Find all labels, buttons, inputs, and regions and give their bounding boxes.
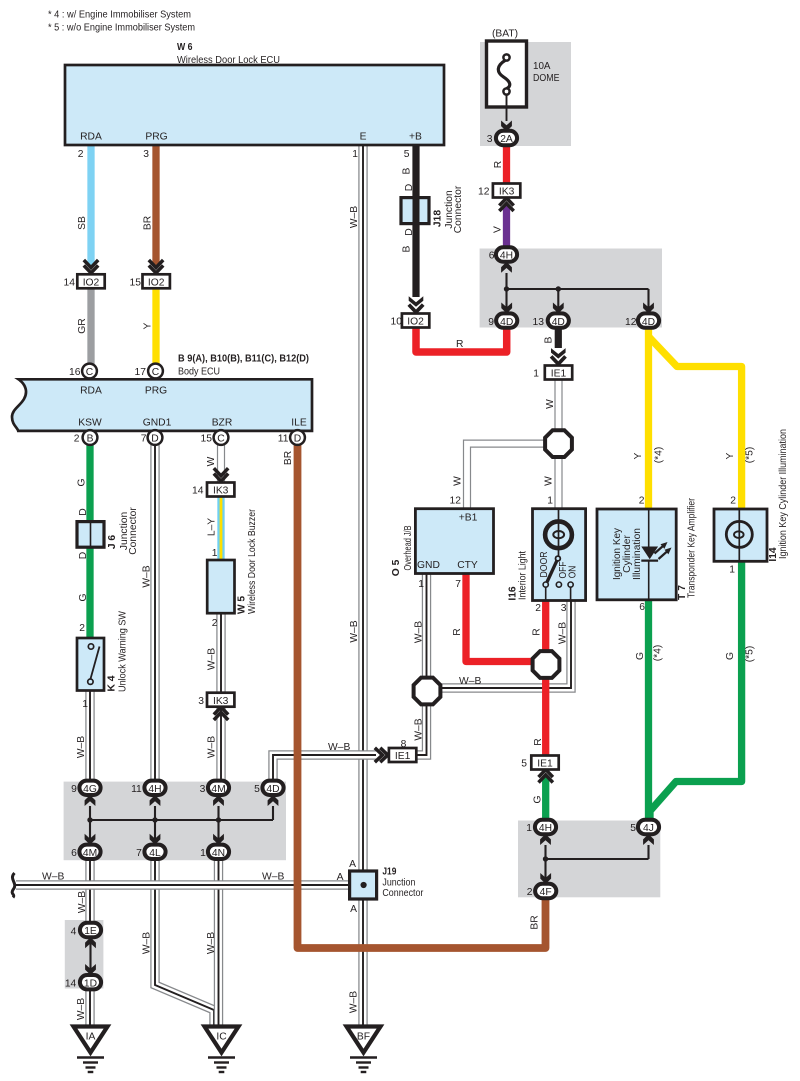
wire W from IE1 pin 1 to splice A xyxy=(554,380,562,430)
Body ECU pin 17 C xyxy=(148,364,163,379)
svg-text:4H: 4H xyxy=(539,823,552,834)
svg-text:W 6: W 6 xyxy=(177,42,193,53)
label W6 xyxy=(177,42,280,66)
shaded relay block 4H/4D xyxy=(480,249,662,328)
svg-text:15: 15 xyxy=(130,278,142,289)
ground BF xyxy=(347,1027,381,1073)
connector 5 4J xyxy=(638,820,659,845)
svg-text:(*5): (*5) xyxy=(745,447,756,464)
svg-text:BF: BF xyxy=(357,1032,370,1043)
svg-text:4M: 4M xyxy=(83,848,97,859)
svg-text:2: 2 xyxy=(78,149,84,160)
svg-text:IE1: IE1 xyxy=(395,751,411,762)
svg-text:W: W xyxy=(544,476,555,486)
wire label W-B 4N xyxy=(206,932,217,954)
wire labels G D J6 K4 xyxy=(77,478,90,601)
svg-text:R: R xyxy=(493,161,504,168)
splice B xyxy=(414,678,441,705)
svg-text:Connector: Connector xyxy=(382,888,423,899)
svg-text:BR: BR xyxy=(530,915,541,929)
wire G from IE1 pin 5 to connector 1 4H xyxy=(542,776,549,821)
wire label W-B 1D xyxy=(76,998,87,1020)
svg-text:C: C xyxy=(217,434,225,445)
label J6 xyxy=(107,507,139,555)
svg-text:W–B: W–B xyxy=(349,991,360,1013)
svg-text:15: 15 xyxy=(201,434,213,445)
wire label W-B K4 xyxy=(76,736,87,758)
pin 1 K4 xyxy=(82,699,88,710)
wire W-B from connector 5 4D to IE1 pin 8 xyxy=(273,755,376,781)
svg-text:2: 2 xyxy=(74,434,80,445)
svg-text:4D: 4D xyxy=(552,317,565,328)
svg-text:10: 10 xyxy=(391,317,403,328)
label W-B splice horizontal xyxy=(459,676,481,687)
pin 5 IE1 xyxy=(521,759,527,770)
svg-text:1: 1 xyxy=(533,369,539,380)
svg-text:IC: IC xyxy=(216,1032,227,1043)
label T7 xyxy=(677,498,698,600)
labels W-B horizontal main xyxy=(42,872,284,883)
svg-text:14: 14 xyxy=(192,486,204,497)
svg-text:5: 5 xyxy=(404,149,410,160)
wire labels W splice A xyxy=(453,476,555,486)
svg-text:1: 1 xyxy=(547,496,553,507)
label (BAT) xyxy=(492,29,518,40)
I16 bottom pin numbers xyxy=(535,603,567,614)
svg-text:Wireless Door Lock Buzzer: Wireless Door Lock Buzzer xyxy=(247,509,258,614)
svg-text:14: 14 xyxy=(64,278,76,289)
wire labels Y *4 xyxy=(633,447,665,464)
svg-text:2: 2 xyxy=(730,496,736,507)
svg-text:W 5: W 5 xyxy=(237,596,248,615)
svg-text:BR: BR xyxy=(283,451,294,465)
wire labels G *4 xyxy=(635,645,664,662)
svg-text:C: C xyxy=(86,367,94,378)
switch K4 Unlock Warning SW xyxy=(77,638,104,691)
connector 14 1D xyxy=(80,964,101,989)
wire W from splice A to O5 +B1 xyxy=(467,444,545,509)
svg-text:B: B xyxy=(87,434,94,445)
svg-text:W–B: W–B xyxy=(262,872,284,883)
svg-text:BZR: BZR xyxy=(212,418,233,429)
svg-text:IK3: IK3 xyxy=(499,187,515,198)
Body ECU pin 16 C xyxy=(82,364,97,379)
svg-text:DOOR: DOOR xyxy=(539,552,550,578)
connector 1 4H xyxy=(535,820,556,845)
svg-text:2: 2 xyxy=(527,887,533,898)
wire SB from W6 RDA xyxy=(87,145,94,266)
svg-text:4M: 4M xyxy=(211,784,225,795)
wire label V xyxy=(493,226,504,233)
svg-text:E: E xyxy=(360,132,367,143)
wire label R I16 pin2 xyxy=(532,628,543,635)
fuse tail arrow xyxy=(501,121,512,132)
svg-text:B 9(A), B10(B), B11(C), B12(D): B 9(A), B10(B), B11(C), B12(D) xyxy=(178,354,309,365)
svg-text:D: D xyxy=(294,434,301,445)
shaded relay block (fuse area) xyxy=(480,42,571,146)
svg-text:Overhead J/B: Overhead J/B xyxy=(403,525,414,570)
svg-text:D: D xyxy=(78,552,89,559)
wire Y from IO2 to Body ECU PRG xyxy=(152,288,159,364)
svg-text:2: 2 xyxy=(535,603,541,614)
wire W-B from connector 7 4L to ground IC xyxy=(155,859,214,1028)
svg-text:W–B: W–B xyxy=(414,621,425,643)
connector 1 4N xyxy=(208,834,229,859)
wire R from splice C to IE1 pin 5 xyxy=(542,678,549,757)
svg-text:3: 3 xyxy=(198,696,204,707)
Body ECU pin 11 D xyxy=(290,430,305,445)
connector IE1 5 xyxy=(531,756,558,783)
O5 bottom pin numbers xyxy=(418,579,461,590)
svg-text:7: 7 xyxy=(455,579,461,590)
wire W-B from connector 1 4N to ground IC xyxy=(214,859,223,1028)
svg-text:(*4): (*4) xyxy=(653,645,664,662)
connector IK3 3 xyxy=(207,693,234,720)
pin numbers 4G row xyxy=(71,784,260,795)
svg-text:PRG: PRG xyxy=(145,132,167,143)
svg-text:KSW: KSW xyxy=(78,418,102,429)
wire label L-Y xyxy=(207,518,218,536)
fuse 10A DOME xyxy=(487,41,527,121)
svg-text:R: R xyxy=(452,628,463,635)
label R horizontal xyxy=(456,339,463,350)
svg-text:ON: ON xyxy=(568,566,579,579)
pin 4 1E xyxy=(71,927,77,938)
svg-text:GND1: GND1 xyxy=(143,418,172,429)
connector 5 4D xyxy=(262,781,283,806)
connector 2 4F xyxy=(535,873,556,898)
ground IC xyxy=(205,1027,239,1073)
svg-text:Connector: Connector xyxy=(128,507,139,555)
ECU W6 Wireless Door Lock ECU xyxy=(65,65,444,145)
wire label B 13 xyxy=(544,336,555,343)
wire label R IE1 5 xyxy=(533,738,544,745)
svg-text:C: C xyxy=(152,367,160,378)
svg-text:B: B xyxy=(544,336,555,343)
connector IK3 12 xyxy=(493,184,520,212)
pin 6 4H xyxy=(489,251,495,262)
svg-text:+B: +B xyxy=(409,132,422,143)
junction connector J6 xyxy=(77,522,104,548)
svg-text:R: R xyxy=(532,628,543,635)
wire labels G *5 xyxy=(725,646,756,663)
thin link lines block 4G/4M xyxy=(90,806,273,844)
wire BR from Body ECU ILE to connector 2 4F xyxy=(298,445,546,948)
svg-text:O 5: O 5 xyxy=(391,559,402,576)
svg-text:2: 2 xyxy=(639,496,645,507)
Body ECU pin 7 D xyxy=(148,430,163,445)
svg-text:IO2: IO2 xyxy=(83,278,100,289)
svg-text:10A: 10A xyxy=(533,61,551,72)
wire W-B from IK3 to connector 3 4M xyxy=(216,706,225,781)
pin 12 O5 xyxy=(450,496,462,507)
pin 2 I14 xyxy=(730,496,736,507)
svg-text:3: 3 xyxy=(487,134,493,145)
wire label W BZR xyxy=(206,456,217,466)
wire W from Body ECU BZR to IK3 xyxy=(217,445,225,483)
svg-text:BR: BR xyxy=(143,216,154,230)
amplifier T7 Transponder Key Amplifier xyxy=(597,509,676,600)
svg-text:W–B: W–B xyxy=(558,622,569,644)
wire W-B from splice B to IE1 pin 8 xyxy=(416,704,427,755)
wire W-B from W5 to IK3 xyxy=(216,613,225,694)
pin 2 4F xyxy=(527,887,533,898)
svg-text:W–B: W–B xyxy=(414,718,425,740)
svg-text:6: 6 xyxy=(71,848,77,859)
wire W-B from connector 14 1D to ground IA xyxy=(85,989,94,1027)
junction connector J18 xyxy=(401,196,429,225)
svg-text:(*5): (*5) xyxy=(745,646,756,663)
wire B from connector 13 4D to IE1 xyxy=(555,327,562,348)
pin 2 T7 xyxy=(639,496,645,507)
connector 3 2A xyxy=(496,131,517,145)
shaded block 1E/1D xyxy=(65,920,104,989)
pin 8 IE1 xyxy=(401,739,407,750)
svg-text:16: 16 xyxy=(69,367,81,378)
svg-text:5: 5 xyxy=(254,784,260,795)
svg-text:IK3: IK3 xyxy=(213,486,229,497)
connector IO2 14 xyxy=(77,260,104,289)
svg-text:Body ECU: Body ECU xyxy=(178,367,220,378)
svg-text:1E: 1E xyxy=(84,926,97,937)
note *5 xyxy=(48,23,195,34)
thin link line 1E to 1D xyxy=(89,938,91,975)
svg-text:B: B xyxy=(402,167,413,174)
labels A J19 xyxy=(337,859,357,915)
svg-text:4F: 4F xyxy=(540,887,552,898)
shaded relay block 4G/4M xyxy=(64,782,286,861)
pin 14 1D xyxy=(65,979,77,990)
svg-text:6: 6 xyxy=(489,251,495,262)
svg-text:IO2: IO2 xyxy=(407,317,424,328)
svg-text:3: 3 xyxy=(200,784,206,795)
svg-text:11: 11 xyxy=(278,434,289,445)
svg-text:RDA: RDA xyxy=(80,386,102,397)
svg-text:D: D xyxy=(151,434,158,445)
svg-text:Y: Y xyxy=(725,452,736,459)
svg-text:12: 12 xyxy=(625,317,637,328)
svg-text:4H: 4H xyxy=(500,251,513,262)
wire Y branch to I14 pin 2 xyxy=(649,337,742,509)
label I14 xyxy=(768,429,789,562)
label K4 xyxy=(107,611,129,692)
connector IO2 10 xyxy=(402,296,429,327)
svg-text:Connector: Connector xyxy=(453,185,464,233)
connector 6 4M xyxy=(79,834,100,859)
thin link lines block 4H/4F xyxy=(546,845,649,884)
wire W-B horizontal main to J19 xyxy=(16,880,351,889)
pin 2 W5 xyxy=(212,618,218,629)
wire GR from IO2 to Body ECU RDA xyxy=(87,288,94,364)
svg-text:W–B: W–B xyxy=(207,736,218,758)
svg-text:(*4): (*4) xyxy=(654,447,665,464)
svg-text:* 5 : w/o Engine Immobiliser S: * 5 : w/o Engine Immobiliser System xyxy=(48,23,195,34)
junction dots block 4G/4M xyxy=(87,817,221,822)
svg-text:9: 9 xyxy=(71,784,77,795)
svg-text:4D: 4D xyxy=(266,784,279,795)
svg-text:8: 8 xyxy=(401,739,407,750)
lamp I14 Ignition Key Cylinder Illumination xyxy=(714,509,767,561)
svg-text:+B1: +B1 xyxy=(459,513,478,524)
svg-text:9: 9 xyxy=(488,317,494,328)
svg-text:W–B: W–B xyxy=(349,206,360,228)
svg-text:Interior Light: Interior Light xyxy=(518,551,529,600)
svg-text:12: 12 xyxy=(478,187,490,198)
svg-text:ILE: ILE xyxy=(291,418,307,429)
svg-text:1: 1 xyxy=(526,823,532,834)
Body ECU bottom pin numbers xyxy=(74,434,289,445)
label I16 xyxy=(508,551,529,601)
svg-text:Illumination: Illumination xyxy=(632,528,643,580)
svg-text:5: 5 xyxy=(521,759,527,770)
svg-text:W: W xyxy=(545,399,556,409)
svg-text:4L: 4L xyxy=(149,848,161,859)
svg-text:R: R xyxy=(533,738,544,745)
svg-text:4D: 4D xyxy=(642,317,655,328)
pin labels 4D row xyxy=(488,317,636,328)
svg-text:GND: GND xyxy=(417,560,440,571)
wire labels SB BR xyxy=(77,216,154,230)
wire label R CTY xyxy=(452,628,463,635)
connector 7 4L xyxy=(144,834,165,859)
svg-text:G: G xyxy=(635,652,646,660)
wire label W-B 4M xyxy=(207,736,218,758)
shaded relay block 4H/4F xyxy=(518,821,660,898)
label W-B IE1 8 xyxy=(328,742,350,753)
pin 6 T7 xyxy=(639,602,645,613)
pins 16 17 xyxy=(69,367,146,378)
connector 9 4G xyxy=(79,781,100,806)
svg-text:R: R xyxy=(456,339,463,350)
pin 1 I16 xyxy=(547,496,553,507)
svg-text:2A: 2A xyxy=(500,134,513,145)
svg-text:4D: 4D xyxy=(500,317,513,328)
svg-text:3: 3 xyxy=(143,149,149,160)
svg-text:11: 11 xyxy=(131,784,142,795)
O5 pin names xyxy=(417,513,478,572)
svg-text:1D: 1D xyxy=(84,978,97,989)
svg-text:W–B: W–B xyxy=(142,932,153,954)
pin numbers 4M row xyxy=(71,848,206,859)
I16 switch labels xyxy=(539,552,579,579)
svg-text:6: 6 xyxy=(639,602,645,613)
wire R from I16 pin 2 to splice C xyxy=(542,599,549,652)
svg-text:A: A xyxy=(350,904,357,915)
svg-text:G: G xyxy=(77,478,88,486)
svg-text:W–B: W–B xyxy=(77,891,88,913)
pin 12 IK3 xyxy=(478,187,490,198)
svg-text:A: A xyxy=(337,872,344,883)
connector 12 4D xyxy=(638,303,659,328)
svg-text:L–Y: L–Y xyxy=(207,518,218,536)
label O5 xyxy=(391,525,414,576)
svg-text:1: 1 xyxy=(200,848,206,859)
pin 1 I14 xyxy=(729,565,735,576)
svg-text:1: 1 xyxy=(418,579,424,590)
svg-text:W: W xyxy=(453,476,464,486)
svg-text:W–B: W–B xyxy=(76,736,87,758)
svg-text:Unlock Warning SW: Unlock Warning SW xyxy=(118,611,129,692)
svg-text:W–B: W–B xyxy=(459,676,481,687)
svg-text:(BAT): (BAT) xyxy=(492,29,518,40)
svg-text:1: 1 xyxy=(352,149,358,160)
svg-text:A: A xyxy=(349,859,356,870)
svg-text:W–B: W–B xyxy=(207,648,218,670)
svg-text:14: 14 xyxy=(65,979,77,990)
svg-text:SB: SB xyxy=(77,216,88,230)
T7 inner labels xyxy=(612,527,643,580)
connector IE1 8 xyxy=(375,748,417,762)
wire label W IE1 xyxy=(545,399,556,409)
svg-text:1: 1 xyxy=(82,699,88,710)
connector IE1 1 xyxy=(545,348,572,380)
svg-text:1: 1 xyxy=(212,548,218,559)
label W6 pins xyxy=(80,132,422,143)
junction dot block 4H/4F xyxy=(543,856,548,861)
wire W-B from K4 to connector 9 4G xyxy=(85,691,94,781)
label J19 xyxy=(382,867,423,899)
svg-text:2: 2 xyxy=(212,618,218,629)
svg-text:13: 13 xyxy=(533,317,545,328)
connector IK3 14 xyxy=(207,468,234,497)
wire label W-B 4L xyxy=(142,932,153,954)
connector 9 4D xyxy=(496,303,517,328)
svg-text:GR: GR xyxy=(77,318,88,333)
pin numbers W6 xyxy=(78,149,410,160)
wire W-B from Body ECU GND1 to connector 11 4H xyxy=(150,445,159,781)
svg-text:W–B: W–B xyxy=(142,565,153,587)
svg-text:J18: J18 xyxy=(433,210,444,227)
connector 13 4D xyxy=(548,303,569,328)
wire label W-B E mid xyxy=(349,620,360,642)
svg-text:G: G xyxy=(533,795,544,803)
svg-text:W–B: W–B xyxy=(42,872,64,883)
pins IO2 14 15 10 xyxy=(64,278,403,328)
label J18 xyxy=(433,185,465,233)
svg-text:Junction: Junction xyxy=(382,877,415,888)
svg-text:7: 7 xyxy=(136,848,142,859)
svg-text:Transponder Key Amplifier: Transponder Key Amplifier xyxy=(687,498,698,598)
svg-text:IE1: IE1 xyxy=(537,759,553,770)
pin 3 IK3 xyxy=(198,696,204,707)
svg-text:7: 7 xyxy=(141,434,147,445)
splice C xyxy=(533,651,560,678)
svg-text:PRG: PRG xyxy=(145,386,167,397)
svg-text:4: 4 xyxy=(71,927,77,938)
svg-text:Wireless Door Lock ECU: Wireless Door Lock ECU xyxy=(177,55,280,66)
svg-text:W: W xyxy=(206,456,217,466)
svg-text:Y: Y xyxy=(633,452,644,459)
connector IO2 15 xyxy=(143,260,170,289)
wire label W-B I16 pin3 xyxy=(558,622,569,644)
svg-text:IE1: IE1 xyxy=(551,369,567,380)
wire L-Y from IK3 to W5 xyxy=(217,495,224,561)
svg-text:3: 3 xyxy=(561,603,567,614)
wire B from W6 +B through J18 to IO2 xyxy=(412,145,419,297)
connector 3 4M xyxy=(208,781,229,806)
wire labels GR Y xyxy=(77,318,154,333)
pin 2 K4 xyxy=(79,623,85,634)
svg-text:4H: 4H xyxy=(148,784,161,795)
svg-text:CTY: CTY xyxy=(457,560,478,571)
connector 11 4H xyxy=(144,781,165,806)
Body ECU pin names xyxy=(78,386,307,429)
connector 4 1E xyxy=(80,923,101,948)
svg-text:W–B: W–B xyxy=(349,620,360,642)
wire R from O5 CTY to splice C xyxy=(466,572,534,662)
wire R from IO2 to connector 9 4D xyxy=(416,326,507,352)
svg-text:D: D xyxy=(404,184,415,191)
